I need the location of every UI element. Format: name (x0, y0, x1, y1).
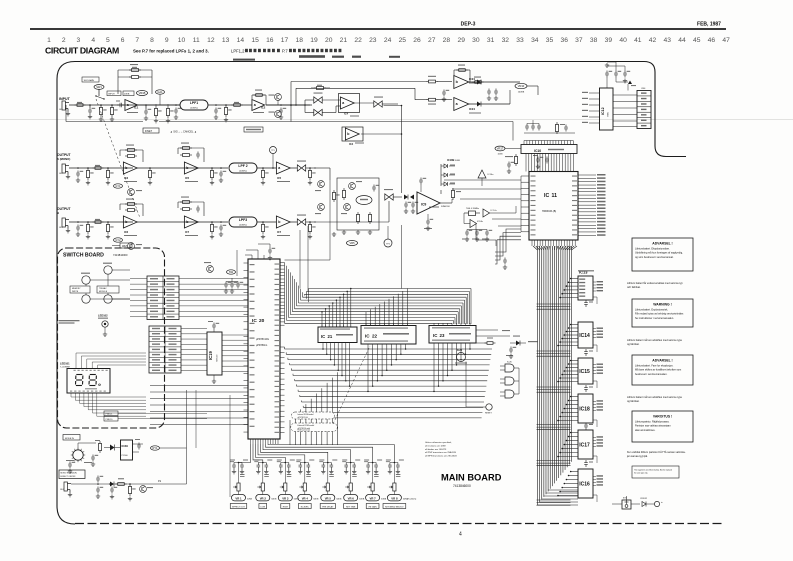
ic IC13 right hook wire (593, 297, 597, 304)
resistor RA2 (555, 125, 558, 132)
svg-text:Lithium batteri får endast ers: Lithium batteri får endast ersättas med … (627, 282, 683, 285)
svg-text:jan samaa tyyppiä.: jan samaa tyyppiä. (626, 455, 648, 458)
capacitor C104 (96, 487, 100, 494)
svg-text:Lithium batteri må kun udskift: Lithium batteri må kun udskiftes med sam… (627, 396, 683, 399)
ic IC29 wires (133, 443, 144, 445)
svg-text:alan ammattimies.: alan ammattimies. (635, 429, 656, 432)
svg-text:▲ SIG→←CANCEL ▲: ▲ SIG→←CANCEL ▲ (170, 129, 197, 133)
ic IC10 to IC11 pin comb (525, 154, 527, 172)
feedback box IC3 (119, 150, 121, 156)
wire harness left risers (236, 250, 238, 276)
ic IC20 right pins upper (280, 262, 285, 264)
capacitor C100 (68, 462, 72, 469)
op-amp IC3b (123, 162, 137, 174)
svg-text:LPF1: LPF1 (190, 101, 198, 105)
svg-text:IC: IC (365, 334, 370, 339)
ic IC21 bottom pins (322, 343, 324, 345)
warning box ADVARSEL 1 (632, 238, 693, 271)
svg-text:IC25: IC25 (457, 349, 463, 352)
svg-text:PRE DELAY: PRE DELAY (322, 505, 334, 508)
stamp relay RY1 (151, 446, 160, 450)
svg-text:10KB: 10KB (498, 154, 504, 156)
wires above IC10 (524, 132, 575, 134)
display top wires (76, 353, 146, 369)
svg-text:36: 36 (560, 37, 568, 44)
svg-text:µPD78C10G: µPD78C10G (256, 339, 269, 341)
op-amp IC7a (276, 216, 290, 228)
feedback network over IC1 (118, 68, 152, 94)
ic IC16 right hook wire (593, 495, 597, 502)
ic IC15 left pin tap wires (558, 361, 578, 382)
ic IC15 (578, 358, 593, 384)
stamp VR52 (347, 241, 358, 246)
ground cluster center (342, 230, 346, 234)
transistor Q4 (344, 204, 351, 211)
svg-text:34: 34 (531, 37, 539, 44)
svg-text:GY2: GY2 (115, 238, 121, 242)
resistor R101 (118, 483, 125, 486)
svg-text:7413846000: 7413846000 (453, 484, 471, 488)
dashed label INSET (143, 128, 159, 133)
test point TP2 (384, 239, 392, 247)
wire output A row (69, 167, 133, 169)
boxed label MONO IN (59, 470, 85, 479)
ic IC11 internal pin labels (531, 176, 536, 177)
wire to IC8 row2 (290, 167, 297, 169)
ic IC11 right pins and labels (578, 174, 596, 176)
wire output B row (69, 221, 133, 223)
potentiometer VR6 group (344, 463, 348, 470)
diode D2 (410, 195, 414, 200)
svg-text:IC10a: IC10a (488, 174, 495, 176)
svg-text:21: 21 (340, 37, 348, 44)
svg-text:Lithiumbatteri. Fare for ekspl: Lithiumbatteri. Fare for eksplosjon. (635, 365, 674, 368)
ic IC23 (429, 326, 476, 344)
label NJM4556AV (502, 330, 510, 331)
svg-text:LPF 2: LPF 2 (238, 164, 247, 168)
svg-text:17: 17 (281, 37, 289, 44)
svg-text:ADVARSEL !: ADVARSEL ! (652, 359, 672, 363)
svg-text:MEMORY: MEMORY (72, 288, 81, 290)
led LED102 (102, 321, 108, 327)
svg-text:INSET: INSET (145, 130, 153, 133)
main board outline (75, 62, 686, 157)
svg-text:25: 25 (399, 37, 407, 44)
bus fan from IC11 (533, 246, 577, 250)
svg-text:IC6: IC6 (124, 230, 129, 234)
resistor R34 (148, 171, 151, 178)
wire footswitch row (71, 483, 187, 485)
resistor R11 (317, 87, 324, 90)
battery wires (612, 503, 622, 505)
stamp VR20 (227, 270, 236, 274)
capacitor C91 (614, 71, 618, 78)
capacitor C63 (426, 219, 430, 226)
svg-text:µPD7811G: µPD7811G (256, 345, 267, 347)
connector table CN1 (147, 276, 179, 320)
bus nest lower risers IC22 (368, 346, 406, 392)
wire footswitch to main (160, 447, 187, 449)
ic IC13 right pin labels (593, 281, 596, 283)
capacitor C81 (536, 157, 540, 164)
gate IC26b (505, 377, 514, 385)
connector table CN2 right wires (181, 328, 207, 330)
svg-text:IC19: IC19 (208, 350, 213, 360)
gate IC26c (505, 390, 514, 398)
analog switch IC8c (374, 101, 382, 107)
wire row3 mid (137, 221, 228, 223)
capacitor C1 (88, 108, 92, 115)
crystal X1 (469, 211, 476, 216)
capacitor C95 (509, 347, 513, 354)
svg-text:29: 29 (457, 37, 465, 44)
svg-text:14: 14 (237, 37, 245, 44)
svg-text:GA1: GA1 (157, 90, 163, 94)
ic IC17 right hook wire (593, 456, 597, 463)
svg-text:Se instruktioner i servicemanu: Se instruktioner i servicemanualen. (635, 317, 674, 320)
pnb wires (118, 412, 207, 414)
svg-text:43: 43 (663, 37, 671, 44)
jack JK2 (62, 164, 69, 175)
resistor R32 (95, 167, 101, 170)
svg-text:all NPN transistors are 2SC260: all NPN transistors are 2SC2603 (425, 455, 457, 458)
diode D101 (110, 482, 114, 487)
capacitor C82 (545, 157, 549, 164)
ic IC20 bottom pins (250, 439, 252, 444)
svg-text:(20kHz): (20kHz) (239, 170, 247, 172)
capacitor C102 (137, 443, 141, 450)
svg-text:5098: 5098 (455, 160, 461, 162)
stamp VR1B (137, 91, 148, 96)
svg-text:VR 3: VR 3 (282, 496, 289, 500)
svg-text:13: 13 (222, 37, 230, 44)
resistor R3 (110, 108, 113, 115)
svg-text:Unless otherwise specified,: Unless otherwise specified, (425, 441, 452, 444)
svg-text:og fabrikat.: og fabrikat. (627, 343, 640, 346)
transistor Q3 (349, 183, 356, 190)
wire clock down (475, 224, 477, 241)
display LED101 7-segment (67, 369, 110, 394)
svg-text:23: 23 (440, 333, 445, 338)
svg-text:38: 38 (590, 37, 598, 44)
ic IC17 right pin labels (593, 436, 596, 438)
dashed label 100%GAIN (82, 77, 99, 82)
ic IC11 bottom pins (531, 240, 533, 246)
resistor R53 (356, 215, 359, 222)
page header rule (30, 28, 726, 30)
boxed label MEMORY WRITE (70, 286, 90, 293)
svg-text:VR 6: VR 6 (348, 496, 355, 500)
ic IC18 right hook wire (593, 420, 597, 427)
ic IC23 bottom pins (433, 343, 435, 345)
stamp VR17 (495, 146, 505, 151)
svg-text:11: 11 (552, 193, 558, 199)
ic IC12 left pins (589, 92, 600, 94)
resistor R102 (128, 487, 131, 494)
resistor R1 (77, 104, 83, 107)
ic IC15 right pin labels (593, 364, 596, 366)
bus nest verticals down (290, 372, 338, 445)
warning box VAROITUS (632, 411, 693, 442)
capacitor C43 (219, 225, 223, 232)
jack JK3 (62, 218, 69, 229)
dashed label reset (244, 127, 263, 132)
stamp GY2 (114, 238, 123, 242)
svg-text:INPUT: INPUT (59, 97, 71, 101)
ic IC14 (578, 322, 593, 348)
wire long feedback row1 (66, 121, 143, 123)
resistor pack RA1 (514, 157, 517, 164)
resistor R41 (86, 225, 89, 232)
svg-text:P.7: P.7 (282, 49, 288, 54)
resistor R25b (429, 98, 436, 101)
svg-text:IC12: IC12 (601, 107, 605, 115)
svg-text:30: 30 (472, 37, 480, 44)
capacitor C105 (110, 487, 114, 494)
feedback network IC5b (177, 148, 179, 154)
note callout 1 (292, 412, 335, 419)
tape marks above border (233, 55, 400, 60)
resistor R48 (308, 225, 311, 232)
svg-text:IC7: IC7 (185, 230, 190, 234)
svg-text:IC10: IC10 (534, 149, 541, 153)
op-amp IC4a (339, 94, 360, 113)
wires IC23 right (476, 329, 498, 331)
main board outline bottom dashed (75, 523, 723, 525)
resistor R52 (342, 191, 345, 198)
svg-text:IC3: IC3 (124, 176, 129, 180)
transistor Q1b (275, 111, 282, 118)
svg-text:VR10: VR10 (518, 84, 525, 88)
bus nest upper right drops (452, 289, 471, 325)
svg-text:IC29: IC29 (122, 444, 129, 448)
svg-text:4: 4 (459, 532, 462, 538)
svg-text:VR17: VR17 (497, 147, 504, 151)
box bias network (337, 178, 379, 230)
capacitor C2 (117, 103, 124, 107)
potentiometer VR3 group (279, 463, 283, 470)
bus corner bends to IC16 (538, 490, 579, 505)
svg-text:31: 31 (487, 37, 495, 44)
ic IC18 (578, 394, 593, 423)
svg-text:IC14: IC14 (579, 333, 590, 339)
svg-text:VR 7: VR 7 (369, 496, 376, 500)
svg-text:VR 8: VR 8 (391, 496, 398, 500)
svg-text:SW1: SW1 (96, 85, 102, 89)
resistor R51 (332, 193, 335, 200)
display pin fan (71, 393, 146, 416)
svg-text:8: 8 (150, 37, 154, 44)
svg-text:(T.14mm): (T.14mm) (407, 499, 417, 501)
svg-text:VR 2: VR 2 (260, 496, 267, 500)
label board note (59, 320, 80, 321)
wire riser x230 (229, 395, 231, 497)
svg-text:21: 21 (328, 334, 333, 339)
dashed box INPUT/20KB (107, 91, 121, 96)
node A wire down (290, 105, 292, 122)
resistor R47 (261, 225, 264, 232)
svg-text:KEY TIME: KEY TIME (346, 506, 356, 508)
boxed label PNB20 (104, 416, 118, 421)
svg-text:THE 4.19MHz: THE 4.19MHz (466, 208, 479, 210)
low pass filter LPF3 (229, 217, 257, 227)
jack JK1 (62, 101, 69, 112)
ic IC11 left pins (521, 175, 529, 177)
svg-text:100KB: 100KB (518, 92, 525, 94)
ic IC19 right wires to IC20 (222, 334, 248, 336)
ic IC16 (578, 469, 593, 498)
svg-text:PC900: PC900 (122, 455, 129, 457)
potentiometer VR4 group (299, 463, 303, 470)
reset circle (486, 404, 492, 410)
resistor R26b (429, 80, 436, 83)
capacitor C26 (494, 89, 498, 96)
diode D1 (404, 195, 408, 200)
switch wires (85, 284, 87, 286)
svg-text:INPUT: INPUT (108, 94, 115, 96)
svg-text:46: 46 (708, 37, 716, 44)
svg-text:VR 4: VR 4 (302, 496, 309, 500)
resistor R64 (451, 191, 454, 198)
resistor R5 (154, 109, 157, 116)
svg-text:IC: IC (321, 334, 325, 339)
svg-text:44: 44 (678, 37, 686, 44)
resistor R37 (261, 171, 264, 178)
transistor Q1 (318, 181, 325, 188)
ic IC10 top pins (523, 141, 525, 145)
transistor Q20 (207, 266, 214, 273)
svg-text:to: to (661, 501, 663, 504)
stamp GA1 (156, 90, 165, 94)
svg-text:og fabrikat.: og fabrikat. (627, 400, 640, 403)
ic IC10 latch (521, 145, 577, 154)
wire row2 mid (137, 167, 228, 169)
wire IC24b out (469, 81, 520, 83)
transistor IC25 (457, 353, 466, 362)
svg-text:(20kHz): (20kHz) (190, 107, 198, 109)
ic IC18 right pin labels (593, 400, 596, 402)
svg-text:50KB: 50KB (247, 498, 253, 500)
wire input row 2 (208, 104, 252, 106)
svg-text:37: 37 (575, 37, 583, 44)
analog switch IC8a (314, 97, 322, 103)
svg-text:NJM4558: NJM4558 (441, 206, 450, 208)
svg-text:10: 10 (178, 37, 186, 44)
resistor R46 (210, 225, 213, 232)
capacitor C60 (404, 202, 408, 209)
svg-text:IC 10c: IC 10c (491, 210, 498, 212)
svg-text:42: 42 (649, 37, 657, 44)
capacitor C25 (487, 89, 491, 96)
svg-text:50KB: 50KB (381, 498, 387, 500)
svg-text:Lithiumparisto. Räjähdysvaara.: Lithiumparisto. Räjähdysvaara. (635, 421, 670, 424)
ic IC19 top cap (212, 323, 216, 330)
wire bus row3 to center (314, 221, 340, 223)
switch SW1a contacts (96, 96, 104, 99)
svg-text:Lithium batteri må kun udskift: Lithium batteri må kun udskiftes med sam… (627, 339, 683, 342)
ic IC11 left wires (444, 179, 521, 181)
svg-text:LED102: LED102 (98, 314, 108, 318)
svg-text:IC26: IC26 (507, 362, 512, 364)
svg-text:WARNING !: WARNING ! (653, 303, 671, 307)
svg-text:IC2: IC2 (261, 106, 266, 110)
diode D24a (477, 80, 481, 85)
svg-text:External ROM model: External ROM model (298, 424, 315, 427)
capacitor C24 (442, 90, 446, 97)
switch SW103 (82, 295, 90, 303)
note callout leader (333, 346, 370, 424)
wire bus row2 to center (314, 167, 330, 169)
svg-text:LOW: LOW (261, 506, 266, 508)
stamp VR10 (515, 83, 527, 88)
ic IC13 left pin tap wires (560, 279, 578, 298)
svg-text:ADVARSEL !: ADVARSEL ! (652, 242, 672, 246)
transistor Q100 (140, 486, 147, 493)
svg-text:26: 26 (413, 37, 421, 44)
wire after LPF3 (257, 221, 276, 223)
svg-text:50KB: 50KB (271, 498, 277, 500)
svg-text:IC4: IC4 (344, 112, 349, 116)
connector table CN1 left wires (130, 278, 147, 280)
wire center to IC9 (393, 196, 402, 198)
svg-text:See P.7 for replaced LPFs 1, 2: See P.7 for replaced LPFs 1, 2 and 3. (133, 49, 209, 54)
ic IC17 left pin tap wires (558, 433, 578, 457)
op-amp IC5b (184, 162, 198, 174)
dashed link VR1 ganged (96, 99, 140, 218)
wire second to IC24a (296, 87, 415, 89)
wire harness row2 (329, 180, 331, 260)
rotary switch SW105 (73, 450, 83, 460)
optocoupler IC29 (121, 440, 133, 460)
capacitor C33 (219, 171, 223, 178)
svg-text:20: 20 (325, 37, 333, 44)
node stamp VR1 (94, 85, 104, 90)
analog switch IC8e (297, 219, 305, 225)
svg-text:Udskiftning må kun foretages a: Udskiftning må kun foretages af sagkyndi… (635, 252, 683, 255)
svg-text:WRITE: WRITE (72, 291, 79, 293)
ic IC20 (248, 259, 280, 439)
wires display fan to IC20 (150, 386, 248, 425)
ic IC18 left pin tap wires (558, 397, 578, 421)
svg-text:A (MONO): A (MONO) (57, 157, 70, 161)
connector table CN2 (149, 326, 181, 373)
svg-text:ROM connection: ROM connection (298, 429, 311, 432)
svg-text:15: 15 (251, 37, 259, 44)
svg-text:E.LEVEL: E.LEVEL (301, 506, 310, 508)
svg-text:PNB 21: PNB 21 (106, 414, 114, 416)
op-amp IC6b (123, 216, 137, 228)
svg-text:RY1: RY1 (153, 446, 159, 450)
note callout 2 (291, 423, 338, 432)
ic IC14 right pin labels (593, 328, 596, 330)
svg-text:5: 5 (106, 37, 110, 44)
wire IC24a out (469, 103, 510, 105)
svg-text:LED101: LED101 (60, 362, 70, 366)
warning box WARNING (632, 299, 693, 327)
capacitor C3 (144, 109, 148, 116)
svg-text:IC16: IC16 (579, 482, 590, 488)
svg-text:40: 40 (619, 37, 627, 44)
switch board outline (58, 248, 165, 428)
stamp GY1 (114, 184, 123, 188)
wires IC11 lower left staircase (495, 229, 521, 264)
resistor R8 (234, 104, 241, 107)
low pass filter LPF2 (229, 163, 257, 173)
capacitor C72 (475, 230, 479, 237)
capacitor C101 (91, 455, 95, 462)
footswitch section outline (58, 431, 60, 433)
capacitor C71 (465, 230, 469, 237)
